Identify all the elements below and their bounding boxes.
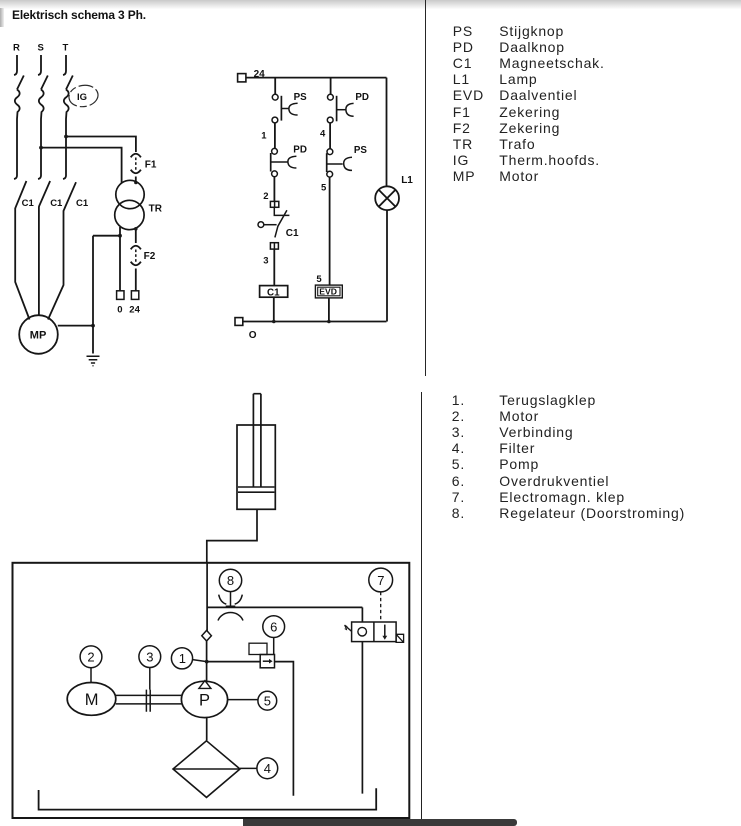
svg-text:2: 2 (263, 191, 268, 202)
svg-text:MP: MP (30, 330, 47, 342)
wire T to F1 (66, 137, 136, 153)
svg-text:1: 1 (261, 130, 267, 141)
wire ground vertical (92, 236, 94, 354)
svg-text:6: 6 (270, 619, 277, 634)
cylinder piston (238, 487, 274, 492)
legend bottom (452, 392, 685, 520)
svg-text:T: T (63, 43, 69, 54)
balloon 4 (240, 758, 278, 779)
svg-text:PD: PD (355, 92, 369, 103)
coil EVD (315, 285, 342, 298)
svg-text:3: 3 (263, 255, 268, 266)
node T tap (64, 135, 68, 139)
valve 7 solenoid actuator (344, 625, 351, 632)
pushbutton PS branch2 (327, 149, 352, 177)
thermal element T (63, 90, 69, 180)
wire bottom rail (243, 321, 387, 323)
svg-text:P: P (199, 692, 210, 710)
terminal block lower (270, 243, 278, 249)
svg-text:C1: C1 (76, 198, 89, 209)
ground (87, 356, 100, 366)
wire C1 coil to rail (273, 297, 275, 321)
wire transformer-0 to ground branch (93, 235, 120, 237)
node coil EVD rail (327, 320, 331, 324)
thermal element R (14, 90, 20, 180)
svg-text:S: S (38, 43, 44, 54)
motor-pump shaft (116, 695, 182, 704)
node secondary-left junction (118, 234, 122, 238)
svg-text:C1: C1 (50, 198, 63, 209)
filter 4 (173, 741, 240, 798)
contactor C1 pole R (15, 181, 34, 209)
wire pump pressure line (206, 563, 208, 631)
solenoid valve 7 body (352, 622, 397, 642)
svg-text:IG: IG (77, 92, 87, 103)
wire node4 (329, 123, 331, 149)
balloon 5 (228, 691, 277, 710)
check valve symbol (202, 630, 212, 641)
wire R to motor (15, 208, 29, 320)
svg-text:24: 24 (129, 305, 140, 316)
svg-text:7: 7 (377, 573, 384, 588)
bottom black bar (243, 819, 517, 826)
divider line top section (425, 0, 426, 376)
divider line bottom section (421, 392, 422, 821)
node pump outlet junction (205, 660, 209, 664)
wire branch1 drop (274, 78, 276, 95)
svg-text:PS: PS (294, 92, 308, 103)
node secondary-right (134, 227, 138, 231)
breaker contact T (66, 76, 73, 90)
terminal 24 (131, 291, 138, 300)
wire S to transformer (41, 148, 122, 184)
svg-text:EVD: EVD (319, 287, 337, 297)
left scan smudge (0, 8, 4, 27)
terminal 0 (117, 291, 124, 300)
wire pump suction (206, 718, 208, 741)
legend top (453, 23, 605, 185)
svg-text:8: 8 (227, 573, 234, 588)
balloon 1 (171, 648, 206, 669)
svg-text:1: 1 (179, 651, 186, 666)
title (12, 8, 146, 22)
balloon 7 (369, 568, 393, 622)
breaker contact S (41, 76, 48, 90)
svg-text:2: 2 (87, 650, 94, 665)
balloon 2 (80, 646, 102, 683)
node motor-ground junction (91, 324, 95, 328)
flow regulator 8 symbol (218, 592, 243, 621)
svg-text:0: 0 (117, 305, 122, 316)
wire secondary left to terminal 0 (119, 227, 121, 291)
wire lamp to rail (386, 210, 388, 321)
breaker contact R (17, 76, 24, 90)
svg-text:PS: PS (354, 145, 368, 156)
contactor C1 pole S (39, 181, 63, 209)
balloon 8 (219, 569, 241, 591)
cylinder body (237, 425, 275, 509)
cylinder piston rod (253, 394, 261, 487)
wire T to motor (48, 211, 64, 320)
svg-text:L1: L1 (401, 175, 413, 186)
terminal O (235, 318, 243, 326)
contactor C1 pole T (64, 182, 89, 211)
pushbutton PS (272, 94, 298, 123)
fuse F1 (131, 154, 141, 181)
ELECTRICAL SCHEMATIC SVG (0, 0, 430, 380)
pushbutton PD branch2 (327, 94, 353, 123)
wire R lead (14, 55, 17, 75)
wire node1 (274, 123, 276, 148)
svg-text:4: 4 (320, 128, 326, 139)
coil C1 (260, 286, 288, 299)
svg-text:5: 5 (316, 274, 322, 285)
wire cylinder port (207, 509, 257, 563)
wire T lead (63, 55, 66, 75)
wire S lead (38, 55, 41, 75)
wire node2 (273, 177, 275, 202)
svg-text:PD: PD (293, 144, 307, 155)
svg-text:4: 4 (264, 761, 271, 776)
thermal element S (38, 90, 44, 180)
wire S to motor (38, 207, 40, 317)
relief valve pilot box (249, 643, 267, 654)
wire to C1 coil (273, 249, 275, 286)
svg-text:O: O (249, 330, 257, 341)
tank (39, 788, 377, 809)
wire lamp branch (386, 78, 388, 187)
svg-text:TR: TR (149, 204, 163, 215)
wire valve7 inlet corner (361, 607, 363, 622)
svg-text:5: 5 (264, 693, 271, 708)
wire motor to ground node (58, 325, 93, 327)
relief valve 6 body (260, 655, 274, 668)
fuse F2 (131, 246, 141, 291)
pushbutton PD branch1 (271, 148, 297, 176)
svg-text:M: M (85, 691, 99, 709)
svg-text:C1: C1 (22, 198, 35, 209)
lamp L1 (375, 186, 399, 210)
balloon 3 (139, 646, 161, 690)
wire branch2 to EVD (329, 177, 331, 285)
wire check valve to pump (206, 641, 208, 683)
terminal block upper (270, 201, 278, 207)
IG thermal-main circle (68, 83, 100, 108)
HYDRAULIC SCHEMATIC SVG (0, 385, 441, 826)
shaft coupling 3 (146, 690, 150, 712)
svg-text:5: 5 (321, 183, 327, 194)
wire top rail (246, 77, 387, 79)
valve 7 blocked port box (396, 634, 404, 642)
wire branch2 drop (330, 78, 332, 95)
pump P (181, 681, 227, 717)
wire valve7 drain (361, 642, 363, 794)
svg-text:F2: F2 (144, 251, 156, 262)
contact C1 aux (258, 207, 289, 237)
motor MP (19, 315, 58, 354)
svg-text:3: 3 (146, 649, 153, 664)
motor M (67, 683, 116, 716)
svg-text:C1: C1 (286, 228, 299, 239)
terminal 24 control (238, 74, 246, 82)
svg-text:F1: F1 (145, 159, 157, 170)
node S tap (39, 146, 43, 150)
node coil C1 rail (272, 320, 276, 324)
wire pressure to valve7 (207, 606, 362, 608)
pump outlet triangle (199, 681, 211, 689)
top scan-edge gradient band (0, 0, 741, 9)
balloon 6 (263, 616, 285, 655)
wire junction to relief valve (207, 661, 261, 663)
node F1-transformer (134, 181, 138, 185)
wire EVD to rail (328, 298, 330, 322)
wire secondary right to F2 (135, 229, 137, 243)
wire relief drain (275, 662, 294, 796)
svg-text:R: R (13, 43, 20, 54)
power unit enclosure box (13, 563, 410, 818)
transformer TR (115, 180, 145, 229)
svg-text:C1: C1 (267, 287, 280, 298)
